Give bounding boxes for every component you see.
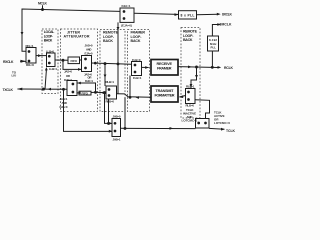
wire FIFO2 to M5 [77,92,79,94]
wire RX bypass under FIFO [63,60,82,69]
dashed box remote loopback left [100,30,125,112]
svg-text:RCLK: RCLK [224,66,234,70]
node TX tap to M6 bottom [62,88,65,91]
svg-text:(EJA=0): (EJA=0) [121,24,132,28]
svg-text:BACK: BACK [103,39,113,43]
svg-text:JAB=0: JAB=0 [113,115,121,119]
mux M5 TX jitter select [67,81,77,96]
dashed box local loopback [42,29,58,94]
svg-text:PLL: PLL [211,46,217,50]
wire FLB bottom input vertical [129,76,131,98]
svg-text:JAB=1: JAB=1 [113,138,121,142]
wire receive framer out to RCLK [178,66,218,69]
box transmit formatter [151,86,178,102]
svg-text:BACK: BACK [131,39,141,43]
node after M3 [94,62,97,65]
wire arrow down on MCLK vertical [21,32,24,36]
svg-text:8 x PLL: 8 x PLL [181,13,195,17]
svg-text:RLB=1: RLB=1 [186,85,195,89]
wire RX rail M3 to FLB [92,63,132,64]
svg-text:FLB=1: FLB=1 [133,76,142,80]
dashed box jitter attenuator [61,29,98,112]
node RCLK tap to PLL [211,66,214,69]
svg-text:LIU: LIU [12,74,17,78]
svg-text:FIFO: FIFO [82,91,89,95]
svg-text:MCLK: MCLK [38,2,48,6]
mux RLB left [106,86,117,99]
wire FLB out to receive framer [142,66,149,68]
wire TX over bypass [77,83,95,92]
wire M2 out [55,59,68,61]
svg-text:ATTENUATOR: ATTENUATOR [64,35,90,39]
svg-text:8MCLK: 8MCLK [220,23,233,27]
svg-text:LOTCMC=0: LOTCMC=0 [214,121,230,125]
FIFO box RX [68,57,80,64]
wire RLB right out to transmit formatter [179,96,185,98]
node TX tap down to M6 top [103,91,106,94]
wire junction to FIFO2 [91,91,96,93]
wire RLB left bottom to M6 top line [108,99,110,123]
svg-text:DJA=1: DJA=1 [122,4,131,8]
box 8.192MHz PLL [208,36,219,51]
svg-text:RXCLK: RXCLK [3,60,14,64]
node RX tap to top mux [117,62,120,65]
wire up to 8.192MHz PLL and 8MCLK [211,51,213,67]
node RX tap to RLB left [104,62,107,65]
wire TX rail left of M5 to TXCLK [18,88,68,90]
node RCLK tap to RLB right [195,66,198,69]
wire M_top out to 8xPLL [134,13,178,14]
svg-text:RLB=1: RLB=1 [106,80,115,84]
svg-text:FORMATTER: FORMATTER [155,94,175,98]
node TX JA junction [94,91,97,94]
wire M6 top feed [105,93,113,124]
mux M_top EJA clock select [120,8,134,22]
svg-text:FRAMER: FRAMER [157,66,172,70]
wire 8xPLL to 8XCLK [197,13,219,16]
wire M7 out to TCLK pin [209,127,225,130]
wire M6 bottom feed [64,89,113,131]
wire MCLK label tick [42,5,44,9]
wire top mux vertical [117,22,119,64]
wire RX down to RLB left mux [104,64,106,86]
svg-text:FIFO: FIFO [71,59,78,63]
dashed box remote loopback right [181,28,200,119]
wire RXCLK input [20,60,26,62]
svg-text:RLB=0: RLB=0 [106,100,115,104]
dashed box framer loopback [128,30,150,112]
wire M6 out to M7 [121,127,196,129]
node TX tap to FLB [129,96,132,99]
wire MCLK top rail [22,9,120,51]
wire RLB right top input [191,67,197,89]
mux M1 RCLK source [26,48,36,64]
wire RX down to remote line join [117,64,119,94]
svg-text:LLB=0: LLB=0 [46,49,54,53]
mux M6 TCLK internal select [112,119,121,137]
svg-text:EJA=0: EJA=0 [85,52,93,56]
svg-text:BACK: BACK [44,39,53,43]
svg-text:TCLK: TCLK [226,129,236,133]
wire TX rail from TF [117,94,152,98]
wire TX arrowhead toward RLB left [136,96,140,99]
svg-text:LOTCMC=1: LOTCMC=1 [182,119,198,123]
wire FIFO1 out to M3 [80,59,82,61]
svg-text:DJA=0: DJA=0 [60,105,68,109]
node M6 out join [124,127,127,130]
svg-text:RCL=1: RCL=1 [26,44,34,48]
svg-text:DJA=1: DJA=1 [64,78,72,82]
mux RLB right [186,89,196,104]
mux FLB framer loopback [132,62,142,76]
mux M2 local loopback [47,53,56,67]
mux M7 TCLK pin select [196,119,210,129]
svg-text:LLB=1: LLB=1 [49,67,57,71]
node M6 top feed join [107,122,110,125]
mux M3 RX jitter select [82,56,92,72]
box receive framer [151,60,178,76]
svg-text:8XCLK: 8XCLK [222,12,233,16]
node bypass tap [62,59,65,62]
wire M1 out to M2 [36,55,47,57]
wire down join to M6 out [124,98,126,129]
svg-text:BACK: BACK [183,38,193,42]
svg-text:RLB=0: RLB=0 [186,104,195,108]
box 8xPLL [179,11,197,19]
svg-text:FLB=0: FLB=0 [132,58,141,62]
svg-text:RCL=0: RCL=0 [26,63,34,67]
node TX local loopback tap [42,88,45,91]
node MCLK tap [41,8,44,11]
svg-text:DJA=1: DJA=1 [85,79,93,83]
wire local loopback up to M2 [45,69,47,90]
FIFO box TX [79,91,91,95]
wire RLB right side input from TCLK mux [195,100,210,119]
wire RLB left out [96,91,107,93]
svg-text:TXCLK: TXCLK [3,88,14,92]
